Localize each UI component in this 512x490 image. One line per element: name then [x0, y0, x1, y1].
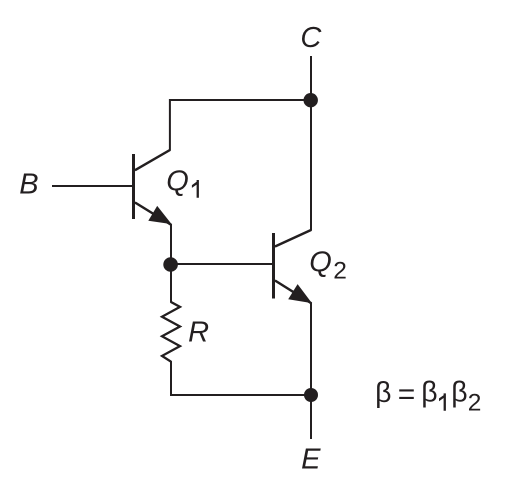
svg-text:2: 2: [333, 257, 347, 284]
svg-text:Q: Q: [309, 247, 332, 279]
svg-text:B: B: [19, 169, 38, 201]
svg-text:Q: Q: [166, 165, 189, 197]
svg-text:β: β: [451, 376, 467, 408]
svg-text:C: C: [300, 22, 322, 54]
svg-text:=: =: [398, 378, 416, 411]
svg-text:2: 2: [468, 390, 482, 417]
svg-text:β: β: [421, 376, 437, 408]
svg-text:E: E: [301, 444, 321, 476]
svg-text:R: R: [188, 317, 209, 349]
svg-text:β: β: [375, 377, 391, 409]
